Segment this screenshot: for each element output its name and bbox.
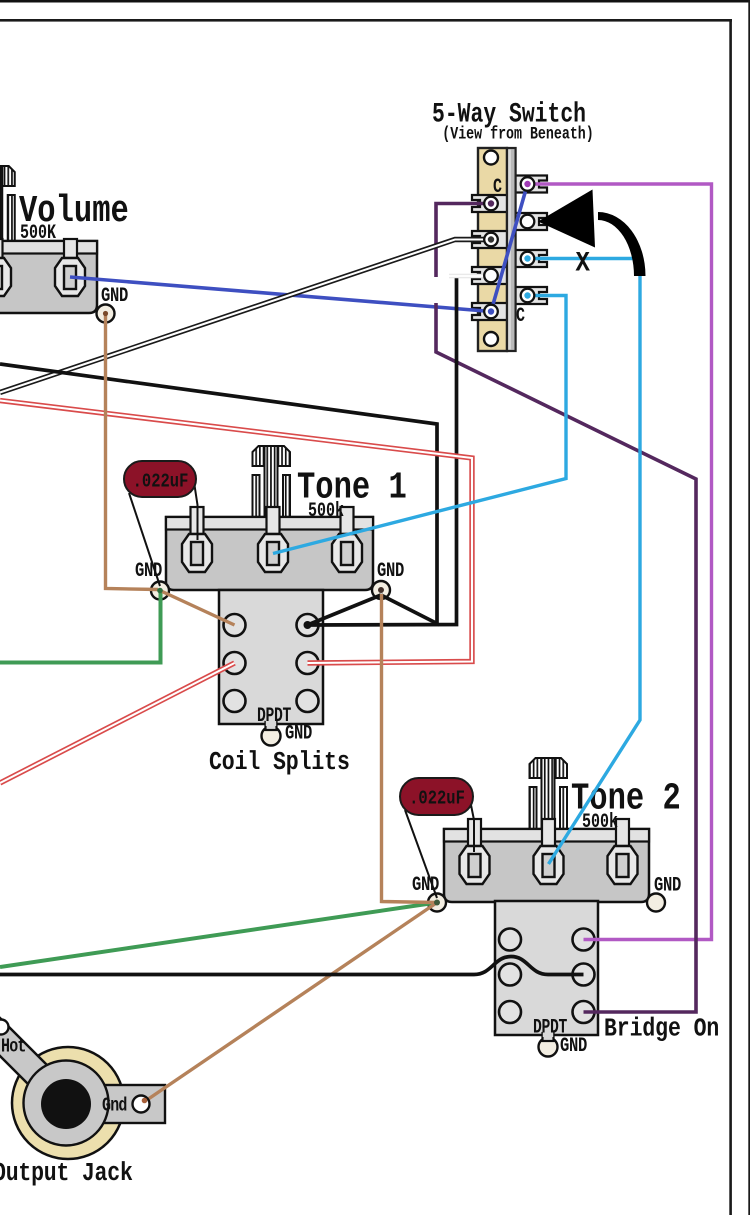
svg-text:GND: GND xyxy=(285,723,312,745)
capacitor C2 .022uF xyxy=(400,778,474,898)
DPDT2 GND bump xyxy=(539,1038,558,1057)
svg-text:GND: GND xyxy=(560,1035,587,1057)
arrow curved tail xyxy=(598,212,646,276)
tone2 body xyxy=(444,829,649,902)
switch tan body xyxy=(478,148,507,351)
top black bar xyxy=(0,0,750,3)
node dots xyxy=(524,181,530,187)
tone2 lug 1 xyxy=(460,846,490,884)
border frame right line xyxy=(729,19,732,1215)
DPDT coil splits body xyxy=(219,590,323,724)
switch right lug 1 xyxy=(513,176,547,193)
volume lug 3 xyxy=(55,258,85,296)
capacitor C1 .022uF xyxy=(124,461,198,586)
tone1 lug 2 xyxy=(258,534,288,572)
volume pot shaft xyxy=(0,166,15,253)
wire red B xyxy=(0,401,472,664)
tone2 lug 3 xyxy=(608,846,638,884)
DPDT bridge-on body xyxy=(495,901,598,1035)
svg-text:Gnd: Gnd xyxy=(102,1096,127,1117)
wire black B2 xyxy=(0,364,437,624)
switch lug circle L4 xyxy=(484,305,498,319)
switch right lug 4 xyxy=(513,287,547,304)
border frame top line xyxy=(0,19,732,22)
switch mount hole bottom xyxy=(484,332,498,346)
switch lug circle L1 xyxy=(484,197,498,211)
jack center hole xyxy=(41,1079,91,1129)
jack body circle xyxy=(24,1061,109,1146)
volume lug 2 (partially visible) xyxy=(0,258,11,296)
wire magenta switch to dpdt2 xyxy=(528,184,712,940)
switch lug circle L3 xyxy=(484,269,498,283)
tone1 lug 1 xyxy=(182,534,212,572)
tone2 lug 2 xyxy=(534,846,564,884)
wire blue switch diagonal xyxy=(491,184,528,312)
switch right lug 3 xyxy=(513,250,547,267)
switch lug circle R4 xyxy=(521,289,535,303)
volume lug tab 2 xyxy=(0,239,3,258)
wire black bubble to dpdt1 xyxy=(308,595,382,625)
tone2 lug tabs xyxy=(468,819,481,846)
volume ground bubble xyxy=(97,305,115,323)
svg-text:500k: 500k xyxy=(582,811,618,834)
switch left lug 2 xyxy=(472,231,507,248)
DPDT1 circles xyxy=(224,614,246,636)
switch lug circle R3 xyxy=(521,252,535,266)
wire green tone2 xyxy=(0,903,437,968)
wire green tone1 xyxy=(0,592,161,663)
jack gnd tab xyxy=(100,1085,165,1123)
svg-text:Bridge On: Bridge On xyxy=(604,1015,719,1044)
jack hot hole xyxy=(0,1020,9,1035)
tone1 lug 3 xyxy=(332,534,362,572)
wire cyan X switch lug3 to tone2 xyxy=(531,259,640,865)
wire brown tone1 bubble to dpdt1 xyxy=(160,591,235,626)
wire dark purple switch to dpdt2 xyxy=(436,204,491,278)
svg-text:Coil Splits: Coil Splits xyxy=(209,748,350,777)
volume pot body xyxy=(0,241,97,313)
svg-text:.022uF: .022uF xyxy=(133,471,189,493)
jack tan ring xyxy=(12,1047,124,1159)
svg-text:500K: 500K xyxy=(20,222,56,245)
tone2 ground bubble left xyxy=(428,894,446,912)
wire brown tone1 right to tone2 xyxy=(382,594,438,903)
wire white switch stub xyxy=(449,274,486,278)
tone2 ground bubble right xyxy=(647,894,665,912)
arrow head xyxy=(538,190,595,248)
wire red A xyxy=(0,663,235,783)
tone1 top bar xyxy=(166,517,373,530)
svg-text:C: C xyxy=(493,176,502,199)
switch left lug 3 xyxy=(472,267,507,284)
switch lug circle L2 xyxy=(484,233,498,247)
DPDT1 GND bump xyxy=(262,727,281,746)
svg-text:Output Jack: Output Jack xyxy=(0,1159,133,1188)
svg-text:.022uF: .022uF xyxy=(409,788,465,810)
svg-text:GND: GND xyxy=(377,560,404,582)
switch lug circle R2 xyxy=(521,215,535,229)
tone2 shaft xyxy=(530,758,568,840)
tone1 body xyxy=(166,517,373,590)
wire black dpdt1 net xyxy=(309,278,457,625)
wire brown jack to tone2 xyxy=(141,903,437,1105)
DPDT2 circles xyxy=(499,929,521,951)
switch gray strip xyxy=(507,148,516,351)
tone1 ground bubble left xyxy=(151,582,169,600)
switch left lug 4 xyxy=(472,303,507,320)
svg-text:(View from Beneath): (View from Beneath) xyxy=(442,124,593,144)
svg-text:X: X xyxy=(576,247,591,279)
wire blue volume to switch xyxy=(70,277,491,312)
switch lug circle R1 xyxy=(521,177,535,191)
jack hot tab xyxy=(0,1016,72,1109)
wire cyan switch lug4 to tone1 xyxy=(273,296,566,554)
tone1 lug tabs xyxy=(191,507,204,534)
tone1 ground bubble right xyxy=(372,581,390,599)
switch right lug 2 xyxy=(513,213,547,230)
switch mount hole top xyxy=(484,151,498,165)
wire black double B1 xyxy=(0,240,489,393)
svg-text:500k: 500k xyxy=(308,500,344,523)
svg-text:Hot: Hot xyxy=(1,1037,26,1058)
wire black hop to dpdt2 xyxy=(0,957,584,975)
volume pot top bar xyxy=(0,241,97,254)
volume lug tab 3 xyxy=(64,239,77,258)
wire brown volume to tone1 xyxy=(106,314,159,590)
switch left lug 1 xyxy=(472,195,507,212)
tone2 top bar xyxy=(444,829,649,842)
svg-text:C: C xyxy=(516,305,525,328)
right edge table line xyxy=(748,0,750,1215)
tone1 shaft xyxy=(253,446,291,528)
